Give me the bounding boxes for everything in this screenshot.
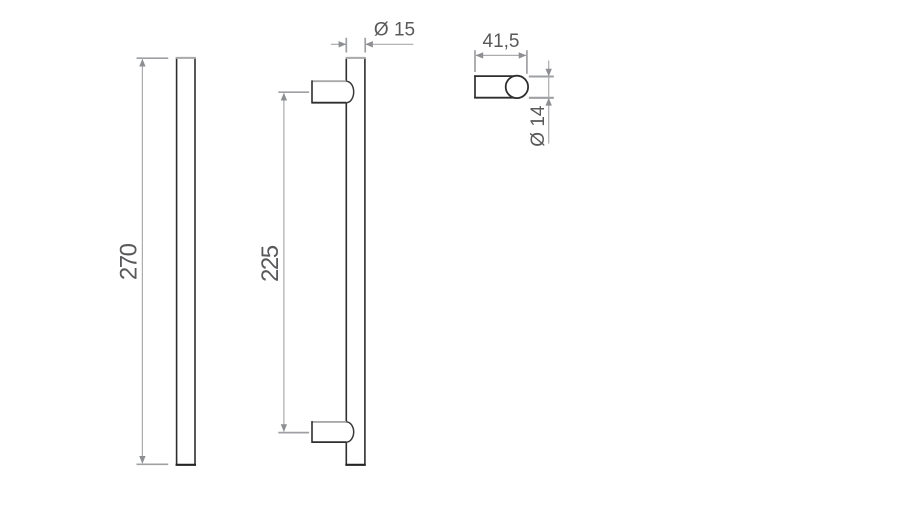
svg-text:41,5: 41,5 [483, 31, 520, 52]
svg-text:270: 270 [116, 243, 143, 280]
svg-text:Ø 14: Ø 14 [528, 105, 549, 147]
svg-text:Ø 15: Ø 15 [374, 20, 415, 41]
svg-text:225: 225 [257, 245, 284, 282]
